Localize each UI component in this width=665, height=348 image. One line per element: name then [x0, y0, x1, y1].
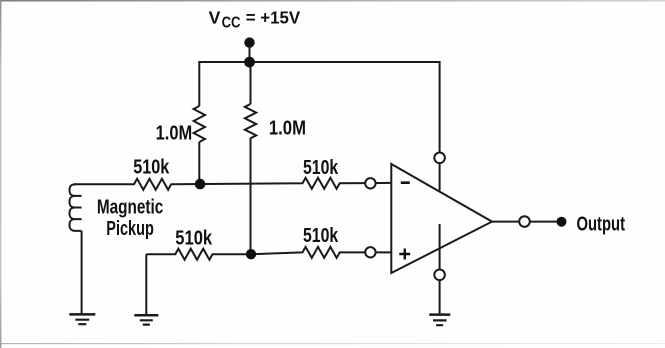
svg-text:1.0M: 1.0M	[156, 123, 193, 145]
svg-text:510k: 510k	[133, 157, 170, 179]
ground G3 (op-amp supply)	[429, 313, 450, 316]
wire top supply rail with left and right drops	[199, 62, 439, 191]
wire non-inverting input row with resistor R5 510k and resistor R6 510k	[146, 247, 391, 260]
junction dot non-inverting node	[246, 249, 256, 259]
wire center drop from rail to R2 top	[250, 62, 252, 104]
op-amp minus sign	[401, 181, 410, 184]
svg-text:Magnetic: Magnetic	[97, 197, 163, 219]
terminal circle non-inverting input	[365, 247, 375, 257]
ground G1 (pickup)	[69, 313, 95, 316]
label Magnetic Pickup	[97, 197, 163, 240]
wire inverting input row with resistor R3 510k and resistor R4 510k	[74, 178, 391, 190]
wire op-amp output	[492, 221, 558, 223]
svg-text:510k: 510k	[303, 157, 339, 179]
svg-text:1.0M: 1.0M	[269, 117, 306, 139]
wire Vcc terminal stub	[249, 44, 251, 62]
svg-text:Pickup: Pickup	[106, 218, 154, 240]
wire R1 bottom to inverting node	[198, 142, 200, 184]
op-amp U1 triangle	[391, 164, 492, 273]
svg-text:510k: 510k	[303, 225, 339, 247]
wire center column R2 bottom to plus node	[250, 138, 252, 254]
svg-text:Output: Output	[577, 214, 626, 236]
wire ground drop of non-inverting network	[145, 254, 147, 315]
op-amp plus sign	[399, 249, 410, 260]
Vcc terminal dot	[244, 37, 254, 47]
wire negative supply pin to ground	[439, 224, 441, 315]
terminal circle negative supply pin	[434, 270, 445, 281]
inductor L1 magnetic pickup coil	[70, 184, 82, 231]
terminal circle positive supply pin	[434, 153, 445, 164]
wire coil to ground	[81, 231, 83, 315]
output terminal dot	[557, 217, 567, 227]
svg-text:510k: 510k	[175, 227, 213, 249]
resistor R2 1.0M (center)	[245, 104, 256, 138]
ground G2 (510k network)	[134, 314, 158, 317]
svg-text:CC: CC	[222, 14, 241, 31]
terminal circle inverting input	[365, 178, 375, 188]
junction dot inverting node	[195, 179, 206, 190]
junction dot Vcc rail	[244, 57, 255, 68]
terminal circle output	[519, 216, 530, 227]
resistor R1 1.0M (left)	[194, 106, 205, 142]
svg-text:= +15V: = +15V	[246, 7, 301, 27]
label VCC = +15V	[209, 7, 301, 31]
svg-text:V: V	[209, 7, 221, 27]
